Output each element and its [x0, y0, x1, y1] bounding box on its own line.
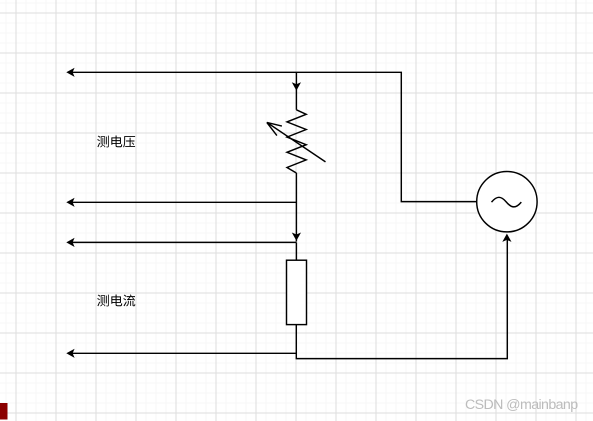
arrowhead down at ammeter branch node — [292, 233, 301, 241]
wire branch down from top rail to rheostat — [295, 72, 297, 110]
wire bottom-left arrow line — [70, 352, 296, 354]
wire rheostat bottom down to ammeter branch node — [295, 173, 297, 242]
wire voltage tap (upper left arrow line) — [70, 201, 296, 203]
hidden-alpha red bar artifact bottom-left — [0, 403, 8, 420]
wire current tap (lower left arrow line) — [70, 241, 296, 243]
label text "测电流" (measure current) — [97, 294, 135, 306]
label text "测电压" (measure voltage) — [97, 136, 135, 148]
arrowhead down on rheostat feed — [292, 82, 301, 90]
wire resistor bottom around to AC source bottom — [296, 240, 507, 359]
wire node to resistor top stub — [295, 242, 297, 260]
arrowhead left on top rail — [66, 68, 74, 77]
AC source U1 circle — [477, 172, 537, 232]
arrowhead left on current tap — [66, 238, 74, 247]
AC source U1 sine symbol — [492, 197, 522, 207]
rheostat R1 zigzag body — [287, 110, 306, 173]
arrowhead left on bottom line — [66, 349, 74, 358]
arrowhead up into AC source — [502, 234, 511, 242]
svg-text:CSDN @mainbanp: CSDN @mainbanp — [465, 397, 578, 413]
arrowhead left on voltage tap — [66, 198, 74, 207]
wire top rail from arrow to AC source (corner at top right) — [70, 72, 477, 201]
rheostat R1 wiper arrow (diagonal) — [267, 122, 326, 161]
resistor R2 box (ammeter shunt) — [287, 260, 307, 324]
